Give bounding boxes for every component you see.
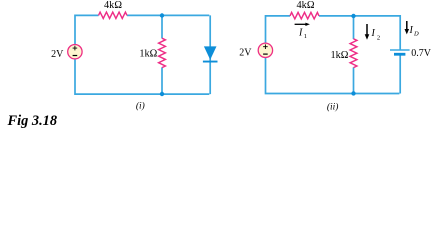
junction node top of 1k branch (ii) — [351, 14, 355, 18]
svg-text:D: D — [413, 31, 419, 38]
resistor 4kOhm circuit (ii) — [290, 12, 319, 19]
svg-text:(i): (i) — [136, 101, 145, 112]
wire circuit (i) 1k branch top — [161, 15, 163, 38]
svg-text:2V: 2V — [51, 49, 64, 60]
svg-text:1kΩ: 1kΩ — [139, 49, 157, 60]
wire circuit (ii) top-left segment — [266, 16, 291, 44]
resistor 1kOhm circuit (ii) — [350, 39, 357, 68]
resistor 4kOhm circuit (i) — [99, 12, 128, 18]
current arrow I1 — [295, 23, 310, 26]
wire circuit (ii) 1k branch bottom — [353, 67, 355, 93]
svg-text:1: 1 — [304, 33, 307, 40]
wire circuit (i) left lower + bottom — [75, 59, 209, 94]
label I1 — [298, 28, 307, 41]
label 2V circuit (i) — [51, 49, 64, 60]
label 0.7V — [411, 48, 432, 59]
resistor 1kOhm circuit (i) — [159, 38, 166, 67]
svg-text:4kΩ: 4kΩ — [297, 0, 315, 11]
svg-text:0.7V: 0.7V — [411, 48, 432, 59]
label ID — [409, 25, 420, 38]
label 4kOhm circuit (ii) — [297, 0, 315, 11]
label 4kOhm circuit (i) — [104, 0, 122, 11]
wire circuit (ii) 1k branch top — [353, 16, 355, 39]
wire circuit (ii) left lower + bottom — [266, 58, 400, 94]
svg-text:I: I — [409, 25, 414, 36]
svg-text:I: I — [371, 28, 376, 39]
diode D circuit (i) — [203, 46, 218, 62]
svg-text:1kΩ: 1kΩ — [330, 50, 348, 61]
wire circuit (i) 1k branch bottom — [161, 67, 163, 94]
label I2 — [371, 28, 381, 42]
junction node top of 1k branch (i) — [160, 13, 164, 17]
junction node bottom of 1k branch (i) — [160, 92, 164, 96]
svg-text:4kΩ: 4kΩ — [104, 0, 122, 11]
battery 0.7V circuit (ii) — [390, 50, 410, 54]
svg-text:(ii): (ii) — [327, 101, 338, 112]
caption Fig 3.18 — [7, 113, 58, 129]
label (i) — [136, 101, 145, 112]
label 1kOhm circuit (i) — [139, 49, 157, 60]
junction node bottom of 1k branch (ii) — [351, 91, 355, 95]
voltage source 2V circuit (ii) — [258, 43, 272, 57]
svg-text:Fig 3.18: Fig 3.18 — [7, 113, 58, 129]
wire circuit (i) top-left segment — [75, 15, 99, 44]
wire circuit (i) right (diode branch) — [209, 15, 211, 94]
voltage source 2V circuit (i) — [68, 45, 82, 59]
label 2V circuit (ii) — [239, 48, 252, 59]
current arrow I2 — [365, 24, 370, 40]
label (ii) — [327, 101, 338, 112]
wire circuit (ii) right below battery — [399, 56, 401, 94]
wire circuit (i) top-right segment — [127, 14, 209, 16]
svg-text:2: 2 — [377, 35, 380, 42]
label 1kOhm circuit (ii) — [330, 50, 348, 61]
wire circuit (ii) top-right segment — [319, 16, 400, 50]
svg-text:I: I — [298, 28, 303, 39]
svg-text:2V: 2V — [239, 48, 252, 59]
current arrow ID — [405, 21, 410, 34]
